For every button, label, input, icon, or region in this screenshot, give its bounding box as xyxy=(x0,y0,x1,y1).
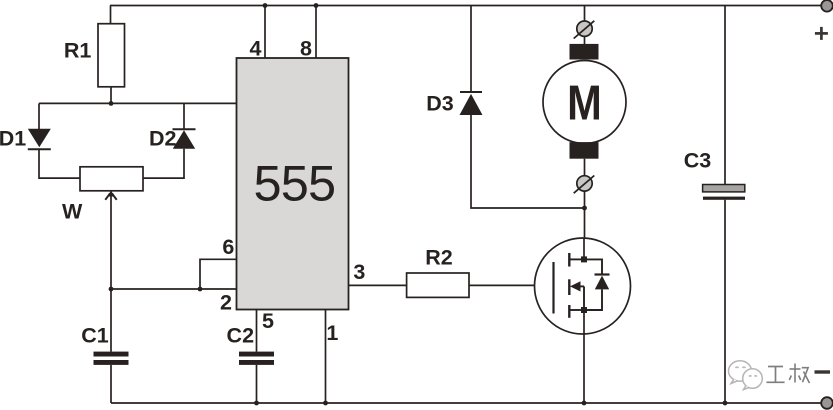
wire horizontal node to pin 7 xyxy=(39,102,237,104)
wire down to D1 xyxy=(38,103,40,129)
wire bottom terminal to Q1 drain xyxy=(584,191,586,238)
diode D2 xyxy=(173,129,196,148)
wire R1 bottom to junction xyxy=(110,87,112,104)
wire Q1 source to ground bus xyxy=(583,310,585,403)
Q1 gate bar xyxy=(552,262,554,314)
svg-text:2: 2 xyxy=(220,290,232,314)
svg-text:3: 3 xyxy=(353,260,365,284)
svg-text:R1: R1 xyxy=(64,39,92,63)
wire pin 5 down to C2 xyxy=(256,310,258,352)
diode D1 xyxy=(28,129,51,150)
svg-text:C2: C2 xyxy=(227,324,255,348)
wire top bus down to motor terminal xyxy=(584,6,586,22)
wire pin 8 to top bus xyxy=(315,6,317,59)
wire node to pin 2 xyxy=(111,288,237,290)
wire step to pin 6 xyxy=(200,259,237,289)
svg-text:4: 4 xyxy=(250,37,262,61)
potentiometer W body xyxy=(80,167,143,191)
terminal plus xyxy=(821,0,833,12)
wire bottom ground bus xyxy=(111,402,827,404)
svg-text:D3: D3 xyxy=(426,92,454,116)
svg-text:5: 5 xyxy=(262,309,274,333)
junction dot pin6 step xyxy=(198,287,203,292)
Q1 body diode xyxy=(584,259,610,310)
junction dot pin1/ground xyxy=(323,401,328,406)
Q1 source node square xyxy=(581,307,587,313)
Q1 source stub xyxy=(569,309,584,311)
svg-text:1: 1 xyxy=(326,321,338,345)
capacitor C3 polarized xyxy=(703,185,745,200)
Q1 channel segments xyxy=(568,253,570,318)
capacitor C2 xyxy=(239,352,274,365)
svg-text:M: M xyxy=(567,75,602,130)
svg-text:W: W xyxy=(62,200,83,224)
resistor R1 xyxy=(98,24,125,87)
wire C2 to ground bus xyxy=(256,365,258,403)
svg-text:D1: D1 xyxy=(0,126,26,150)
wire top bus down to D3 xyxy=(470,6,472,93)
svg-text:C3: C3 xyxy=(684,149,712,173)
svg-text:R2: R2 xyxy=(425,245,453,269)
capacitor C1 xyxy=(94,352,129,365)
motor M xyxy=(543,44,626,159)
wire C1 to ground bus xyxy=(110,365,112,403)
potentiometer W wiper arrow xyxy=(105,191,116,289)
wire top bus down to C3 xyxy=(724,6,726,185)
watermark text shu xyxy=(789,364,809,384)
label minus sign xyxy=(815,370,831,373)
Q1 drain node square xyxy=(581,256,587,262)
Q1 drain stub xyxy=(569,258,584,260)
junction dot R1/pot node xyxy=(109,101,114,106)
wire brush to bottom terminal xyxy=(584,159,586,176)
terminal minus xyxy=(821,397,833,409)
junction dot pin4 xyxy=(263,3,268,8)
wire D1 to pot left xyxy=(39,149,80,178)
watermark wechat logo xyxy=(729,361,763,390)
motor bottom screw terminal xyxy=(574,176,595,194)
diode D3 xyxy=(460,92,483,115)
junction dot pin8 xyxy=(314,3,319,8)
wire down to D2 xyxy=(183,103,185,129)
junction dot D3/motor node xyxy=(582,206,587,211)
svg-text:C1: C1 xyxy=(81,324,109,348)
Q1 body arrow xyxy=(570,281,584,310)
svg-text:8: 8 xyxy=(300,37,312,61)
junction dot wiper/pin2/C1 xyxy=(109,287,114,292)
wire pin 1 to ground bus xyxy=(325,310,327,404)
label plus sign xyxy=(815,27,828,40)
wire pin 4 to top bus xyxy=(264,6,266,59)
wire top supply bus xyxy=(110,5,827,7)
wire Q1 drain up to motor node xyxy=(583,238,585,259)
watermark text gong xyxy=(767,367,785,383)
wire D2 to pot right xyxy=(143,149,184,178)
wire C3 to ground bus xyxy=(724,200,726,403)
svg-text:555: 555 xyxy=(253,154,335,211)
resistor R2 xyxy=(407,273,469,297)
junction dot C2/ground xyxy=(254,401,259,406)
transistor Q1 MOSFET circle xyxy=(535,238,631,334)
motor top screw terminal xyxy=(574,21,595,39)
wire node down to C1 xyxy=(110,289,112,352)
IC 555 U1 xyxy=(237,58,349,310)
junction dot C3/ground xyxy=(723,401,728,406)
svg-text:D2: D2 xyxy=(149,126,177,150)
wire pin 3 to R2 xyxy=(349,284,407,286)
junction dot Q1/ground xyxy=(582,401,587,406)
wire terminal to brush xyxy=(584,36,586,45)
wire D3 to motor node xyxy=(471,115,585,208)
wire from top bus down to R1 xyxy=(110,6,112,25)
svg-text:6: 6 xyxy=(222,235,234,259)
wire R2 to gate xyxy=(469,284,535,286)
